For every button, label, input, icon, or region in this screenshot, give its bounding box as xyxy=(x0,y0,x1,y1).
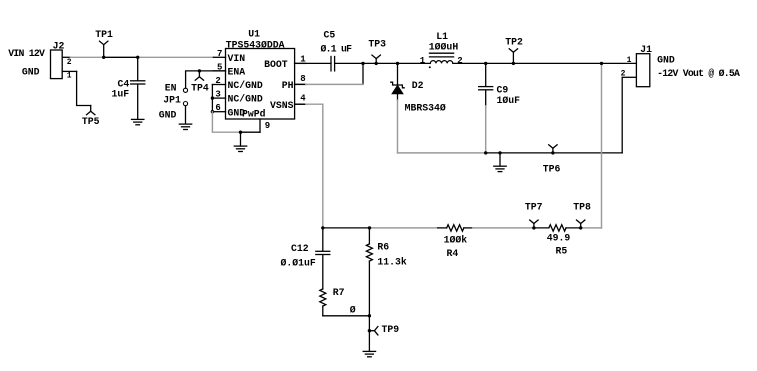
resistor R5 xyxy=(547,225,581,257)
wire TP1 to C4 xyxy=(104,56,138,58)
svg-text:MBRS34Ø: MBRS34Ø xyxy=(405,103,446,114)
svg-text:C9: C9 xyxy=(497,85,509,96)
wire C9 bottom drop xyxy=(485,106,487,153)
junction D2 top xyxy=(396,62,399,65)
svg-text:GND: GND xyxy=(159,110,177,121)
svg-text:J1: J1 xyxy=(640,44,652,55)
wire R6 to R4 xyxy=(370,227,438,229)
wire U1 PH stub xyxy=(295,83,306,85)
diode D2 xyxy=(391,63,446,113)
wire R6 to TP9 xyxy=(368,316,370,331)
ground xyxy=(234,146,246,151)
svg-text:JP1: JP1 xyxy=(163,95,181,106)
svg-text:2: 2 xyxy=(457,56,462,66)
capacitor C5 xyxy=(321,30,353,71)
test point TP2 xyxy=(505,37,523,66)
junction C9 top xyxy=(484,62,487,65)
svg-text:TP7: TP7 xyxy=(525,201,543,212)
wire C5 to PH node xyxy=(335,62,363,64)
ground xyxy=(179,124,191,129)
svg-text:1: 1 xyxy=(67,72,72,81)
wire C12 to R6 xyxy=(323,227,370,229)
capacitor C9 xyxy=(479,63,520,106)
svg-text:TP1: TP1 xyxy=(95,29,113,40)
wire PH riser xyxy=(362,63,364,84)
svg-text:5: 5 xyxy=(217,63,222,73)
wire U1 VSNS stub xyxy=(295,103,306,105)
svg-text:1ØuF: 1ØuF xyxy=(497,95,521,106)
svg-text:D2: D2 xyxy=(412,80,424,91)
wire D2 to L1 xyxy=(398,62,431,64)
svg-text:6: 6 xyxy=(215,103,220,113)
test point TP9 xyxy=(368,324,400,335)
svg-text:L1: L1 xyxy=(436,31,448,42)
wire C4 to U1 VIN xyxy=(138,56,214,58)
svg-text:R4: R4 xyxy=(447,248,459,259)
svg-text:GND: GND xyxy=(22,67,40,78)
wire TP3 to D2 xyxy=(363,62,398,64)
test point TP7 xyxy=(525,201,543,229)
svg-text:C12: C12 xyxy=(291,243,309,254)
svg-text:1: 1 xyxy=(420,56,426,66)
wire TP2 to J1 xyxy=(513,62,636,64)
wire L1 to C9 xyxy=(453,62,486,64)
wire U1 ENA to JP1 xyxy=(186,71,226,88)
wire J2 pin1 to TP5 xyxy=(77,71,91,105)
svg-text:-12V Vout @ Ø.5A: -12V Vout @ Ø.5A xyxy=(657,68,740,79)
svg-text:PwPd: PwPd xyxy=(242,109,266,120)
test point TP6 xyxy=(543,145,561,175)
svg-text:EN: EN xyxy=(165,83,177,94)
junction C12 top xyxy=(321,226,324,229)
svg-text:Ø.Ø1uF: Ø.Ø1uF xyxy=(281,257,316,268)
svg-text:NC/GND: NC/GND xyxy=(228,80,263,91)
svg-text:1ØØk: 1ØØk xyxy=(444,234,468,245)
test point TP3 xyxy=(368,38,386,65)
wire TP8 to riser xyxy=(581,227,602,229)
ground xyxy=(132,119,144,124)
svg-text:ENA: ENA xyxy=(228,67,246,78)
svg-text:TP8: TP8 xyxy=(573,201,591,212)
wire J2 pin2 to TP1 xyxy=(70,56,103,58)
test point TP1 xyxy=(95,29,113,59)
svg-text:9: 9 xyxy=(265,121,270,131)
wire VSNS to C12 node xyxy=(306,104,323,228)
capacitor C12 xyxy=(281,228,330,289)
junction R6 top xyxy=(368,226,371,229)
junction R6 bottom xyxy=(368,314,371,317)
svg-text:C5: C5 xyxy=(324,30,336,41)
wire TP7 to R5 xyxy=(534,227,549,229)
wire output riser xyxy=(601,63,603,228)
resistor R6 xyxy=(366,228,407,316)
svg-text:TP6: TP6 xyxy=(543,163,561,174)
svg-text:Ø: Ø xyxy=(350,305,356,316)
wire C9 to TP2 xyxy=(486,62,514,64)
inductor L1 xyxy=(420,31,463,69)
junction output riser xyxy=(600,62,603,65)
wire -12V rail gray xyxy=(398,152,486,154)
svg-text:TP9: TP9 xyxy=(382,324,400,335)
svg-text:8: 8 xyxy=(300,74,305,84)
wire R4 to TP7 xyxy=(473,227,534,229)
svg-text:2: 2 xyxy=(215,76,220,86)
svg-text:BOOT: BOOT xyxy=(264,59,288,70)
wire ground to pin9 xyxy=(241,131,261,133)
wire U1 BOOT to C5 xyxy=(295,62,331,64)
svg-text:2: 2 xyxy=(67,58,72,67)
svg-text:GND: GND xyxy=(657,55,675,66)
svg-text:2: 2 xyxy=(621,70,626,79)
junction PH node xyxy=(361,62,364,65)
svg-text:3: 3 xyxy=(215,89,220,99)
wire TP9 to ground xyxy=(368,331,370,352)
svg-text:1: 1 xyxy=(627,56,632,65)
svg-text:1uF: 1uF xyxy=(112,89,130,100)
svg-text:11.3k: 11.3k xyxy=(377,257,407,268)
svg-text:VSNS: VSNS xyxy=(270,100,294,111)
wire rail ground stem xyxy=(499,153,501,166)
svg-text:U1: U1 xyxy=(248,28,260,39)
wire R7 to R6 bottom xyxy=(323,315,370,317)
junction ground node xyxy=(239,131,242,134)
capacitor C4 xyxy=(112,57,145,119)
junction rail ground xyxy=(498,151,501,154)
test point TP4 xyxy=(191,69,209,93)
svg-text:NC/GND: NC/GND xyxy=(228,94,263,105)
resistor R7 xyxy=(320,287,356,316)
svg-text:R6: R6 xyxy=(377,242,389,253)
wire D2 anode down xyxy=(397,100,399,153)
svg-text:VIN: VIN xyxy=(228,53,246,64)
svg-text:TPS543ØDDA: TPS543ØDDA xyxy=(226,39,285,50)
svg-text:49.9: 49.9 xyxy=(547,232,571,243)
connector J1 xyxy=(621,44,652,87)
wire U1 GND pins to ground xyxy=(212,112,240,133)
svg-text:TP3: TP3 xyxy=(368,38,386,49)
svg-text:TP4: TP4 xyxy=(191,83,209,94)
svg-text:R5: R5 xyxy=(556,245,568,256)
IC U1 TPS5430DDA xyxy=(211,28,307,132)
ground xyxy=(494,166,506,171)
svg-text:4: 4 xyxy=(300,94,306,104)
wire PH horizontal xyxy=(306,83,363,85)
ground xyxy=(363,351,375,356)
test point TP5 xyxy=(82,106,100,128)
svg-text:1ØØuH: 1ØØuH xyxy=(429,41,459,52)
svg-text:J2: J2 xyxy=(53,41,65,52)
connector J2 xyxy=(51,41,77,81)
svg-text:Ø.1 uF: Ø.1 uF xyxy=(321,44,353,55)
resistor R4 xyxy=(438,225,473,259)
svg-text:R7: R7 xyxy=(333,287,345,298)
svg-text:TP5: TP5 xyxy=(82,116,100,127)
wire -12V rail black xyxy=(486,152,623,154)
test point TP8 xyxy=(573,201,591,229)
junction C4 top xyxy=(136,56,139,59)
svg-text:VIN 12V: VIN 12V xyxy=(8,48,45,59)
svg-text:7: 7 xyxy=(217,49,222,59)
wire J1 pin2 down xyxy=(621,77,623,153)
wire ground stem xyxy=(240,132,242,146)
junction C9 bottom xyxy=(484,151,487,154)
wire JP1 to ground xyxy=(185,106,187,124)
svg-text:TP2: TP2 xyxy=(505,37,523,48)
jumper JP1 xyxy=(159,83,188,121)
svg-text:PH: PH xyxy=(282,80,294,91)
